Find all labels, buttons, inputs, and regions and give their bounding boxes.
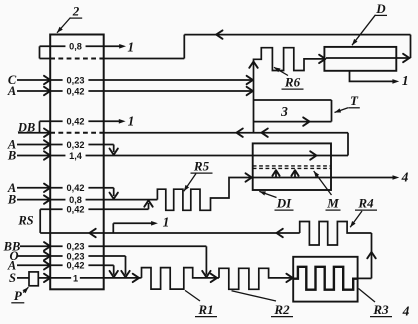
svg-text:0,42: 0,42 [67,183,85,193]
svg-text:R4: R4 [357,196,374,211]
svg-text:0,32: 0,32 [67,140,85,150]
svg-text:2: 2 [72,4,80,19]
svg-text:RS: RS [17,214,33,228]
svg-text:0,23: 0,23 [67,242,85,252]
svg-text:0,8: 0,8 [69,195,82,205]
svg-text:0,42: 0,42 [67,86,85,96]
svg-text:0,42: 0,42 [67,261,85,271]
svg-text:1: 1 [163,215,170,230]
svg-text:1: 1 [127,39,134,54]
svg-text:B: B [7,193,16,207]
svg-text:DB: DB [17,120,35,134]
svg-text:D: D [375,1,386,16]
svg-text:A: A [7,84,16,98]
svg-text:0,42: 0,42 [67,205,85,215]
svg-text:1: 1 [402,73,409,88]
svg-text:R2: R2 [273,302,290,317]
svg-text:B: B [7,149,16,163]
svg-text:1,4: 1,4 [69,151,83,161]
svg-text:S: S [9,271,16,285]
svg-text:4: 4 [402,304,410,319]
svg-text:R1: R1 [197,302,213,317]
svg-text:0,42: 0,42 [67,117,85,127]
svg-text:0,23: 0,23 [67,75,85,85]
svg-text:1: 1 [128,114,135,129]
svg-text:1: 1 [73,273,78,283]
svg-text:0,8: 0,8 [69,42,82,52]
svg-text:DI: DI [276,196,292,211]
svg-text:R5: R5 [193,159,210,174]
svg-text:M: M [326,196,339,211]
svg-text:R6: R6 [284,75,301,90]
svg-text:T: T [350,93,359,108]
svg-text:R3: R3 [372,302,389,317]
svg-text:P: P [14,288,23,303]
svg-text:4: 4 [401,170,409,185]
svg-text:3: 3 [280,104,288,119]
